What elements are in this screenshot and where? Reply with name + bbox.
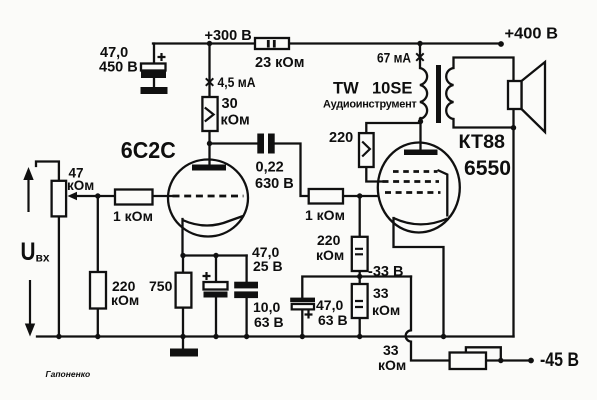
svg-text:67 мА: 67 мА bbox=[377, 51, 411, 66]
svg-text:1 кОм: 1 кОм bbox=[305, 207, 345, 223]
svg-text:630 В: 630 В bbox=[255, 176, 294, 192]
svg-text:-45 В: -45 В bbox=[540, 350, 579, 371]
svg-text:+400 В: +400 В bbox=[505, 26, 559, 43]
svg-text:220: 220 bbox=[317, 232, 341, 248]
svg-text:кОм: кОм bbox=[372, 302, 400, 318]
svg-text:TW: TW bbox=[333, 80, 359, 98]
svg-text:6550: 6550 bbox=[464, 156, 511, 180]
svg-text:47,0: 47,0 bbox=[316, 297, 343, 313]
svg-text:450 В: 450 В bbox=[99, 60, 138, 76]
svg-text:1 кОм: 1 кОм bbox=[113, 208, 153, 224]
svg-text:33: 33 bbox=[373, 285, 389, 301]
svg-text:+300 В: +300 В bbox=[205, 28, 252, 44]
svg-text:33: 33 bbox=[383, 342, 399, 358]
svg-text:63 В: 63 В bbox=[254, 314, 284, 330]
svg-text:10SE: 10SE bbox=[372, 80, 412, 98]
svg-text:кОм: кОм bbox=[111, 292, 139, 308]
svg-text:-33 В: -33 В bbox=[368, 264, 403, 280]
svg-text:6С2С: 6С2С bbox=[121, 137, 176, 163]
svg-text:кОм: кОм bbox=[316, 247, 344, 263]
svg-text:кОм: кОм bbox=[221, 113, 250, 129]
svg-text:Гапоненко: Гапоненко bbox=[46, 369, 91, 379]
svg-text:вх: вх bbox=[36, 251, 50, 265]
svg-text:Аудиоинструмент: Аудиоинструмент bbox=[323, 99, 417, 111]
svg-text:КТ88: КТ88 bbox=[459, 132, 506, 153]
svg-text:0,22: 0,22 bbox=[256, 160, 284, 176]
svg-text:220: 220 bbox=[329, 130, 353, 146]
svg-text:U: U bbox=[21, 238, 36, 266]
svg-text:63 В: 63 В bbox=[318, 312, 348, 328]
svg-text:кОм: кОм bbox=[67, 178, 94, 193]
svg-text:30: 30 bbox=[222, 96, 238, 112]
svg-text:10,0: 10,0 bbox=[253, 299, 280, 315]
svg-text:4,5 мА: 4,5 мА bbox=[218, 74, 256, 90]
svg-text:23 кОм: 23 кОм bbox=[255, 55, 304, 71]
svg-text:кОм: кОм bbox=[378, 357, 406, 373]
svg-text:750: 750 bbox=[149, 278, 173, 294]
svg-text:25 В: 25 В bbox=[253, 258, 283, 274]
